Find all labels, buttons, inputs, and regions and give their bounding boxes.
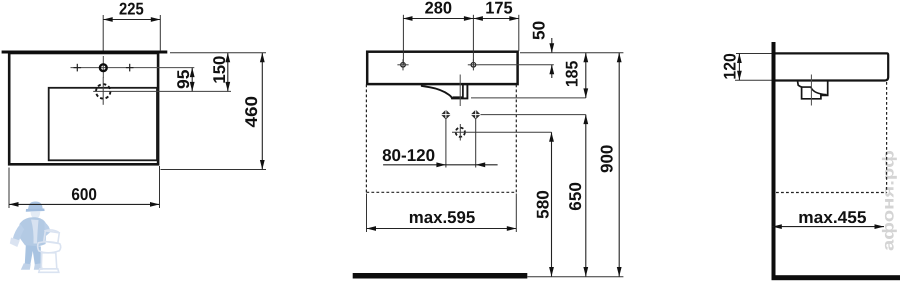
dashed installation outline side [776,82,887,193]
wall line [772,42,776,278]
svg-text:120: 120 [721,53,740,79]
drain dashed circle [96,84,110,98]
node: faucet line to 50 dim [479,64,554,66]
sink side profile [776,53,889,80]
node: drain axis centerline side [810,75,812,106]
dim 120 [721,53,772,80]
dim 600 [9,166,160,208]
wire: outer basin rectangle [9,53,158,164]
trap side outline [798,82,828,99]
dim 150 [210,53,230,92]
svg-text:50: 50 [530,21,549,40]
dim 280 [403,0,519,21]
wire: thick back edge line [2,51,168,54]
dim 580 [534,132,554,276]
cross mark right [126,64,134,72]
dim 225 [103,0,160,51]
svg-text:600: 600 [71,185,97,204]
dim 280 / 175 extension lines [403,15,518,65]
dim 50 [530,21,555,78]
floor bar middle [353,273,624,279]
svg-text:афоня.рф: афоня.рф [880,150,897,251]
dim 900 [598,53,622,277]
wire: trap bottom extension to 185 [471,97,586,99]
svg-text:max.455: max.455 [798,208,866,227]
wire: mounting line to 650 [481,114,586,116]
svg-text:max.595: max.595 [409,208,476,227]
cross mark left [74,64,82,72]
drain mark front [452,124,469,141]
svg-text:900: 900 [598,145,617,173]
svg-text:280: 280 [425,0,452,17]
node: faucet centerline horizontal [71,67,195,69]
drain centerline horizontal to dims [93,90,231,92]
mounting hole left [441,109,452,120]
watermark plumber figure [10,202,61,273]
svg-text:80-120: 80-120 [382,146,435,165]
wire: top extension line of left view [170,52,266,54]
svg-text:650: 650 [566,182,585,211]
node: drain axis centerline front [459,75,461,107]
trap front outline [422,83,468,98]
dim 650 [566,115,588,277]
wire: top edge extension to 900 [520,52,623,54]
wire: bottom extension line of left view [161,169,267,171]
faucet hole ring [100,64,107,71]
dim 185 [563,53,589,98]
dim max.595 [367,194,517,233]
mounting hole right [470,109,481,120]
dashed installation outline [366,85,516,193]
svg-text:175: 175 [485,0,512,17]
floor bar right [772,275,900,280]
dim 175 [473,0,518,21]
svg-text:580: 580 [534,190,553,219]
svg-text:150: 150 [210,56,229,84]
svg-text:460: 460 [242,96,261,128]
faucet mark right [468,59,479,70]
svg-text:225: 225 [119,0,144,19]
drain centerline vertical [102,78,104,105]
faucet mark left [397,59,408,70]
svg-text:95: 95 [174,70,193,90]
dim 95 [174,68,195,92]
wire: inner basin rectangle [49,88,157,161]
wire: drain line to 580 [469,131,552,133]
sink body front [367,52,517,84]
node: faucet centerline vertical [102,56,104,78]
watermark vertical site text [880,150,897,251]
svg-text:185: 185 [563,61,582,88]
dim max.455 [772,208,884,229]
dim 460 [242,53,265,170]
dim 80-120 [382,118,498,168]
